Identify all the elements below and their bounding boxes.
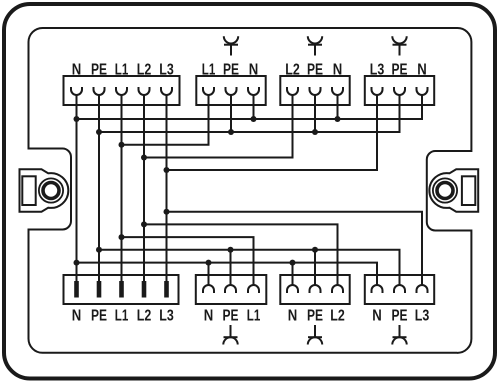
junction PE/X1 bottom bbox=[96, 247, 102, 253]
terminal block X3 top (L2 PE N) bbox=[280, 76, 349, 105]
svg-text:L2: L2 bbox=[137, 308, 152, 325]
svg-text:N: N bbox=[249, 62, 259, 79]
junction N/X2 top bbox=[251, 116, 257, 122]
svg-text:PE: PE bbox=[307, 308, 323, 325]
junction PE/X3 top bbox=[312, 129, 318, 135]
wire X2-PE drop bbox=[230, 95, 232, 132]
junction L3 bottom bbox=[164, 209, 170, 215]
svg-text:N: N bbox=[372, 308, 382, 325]
right lug outer circle bbox=[433, 178, 457, 202]
terminal block X8 bottom (N PE L3) bbox=[365, 275, 434, 304]
X5 pin labels N PE L1 L2 L3 bbox=[72, 308, 174, 325]
wire N feed column (X1-N to X5-N) bbox=[76, 95, 78, 281]
svg-text:N: N bbox=[333, 62, 343, 79]
wire L3 bottom rail to X8-L3 bbox=[167, 212, 423, 285]
X3 pin labels L2 PE N bbox=[285, 62, 342, 79]
PE plug symbol above X3 bbox=[308, 36, 322, 55]
junction N/X1 top bbox=[74, 116, 80, 122]
terminal block X1 top feed-in (N PE L1 L2 L3) bbox=[64, 76, 180, 105]
svg-text:PE: PE bbox=[307, 62, 323, 79]
junction L2 bottom bbox=[141, 221, 147, 227]
X6 pin labels N PE L1 bbox=[204, 308, 261, 325]
wire X6-N riser bbox=[208, 263, 210, 285]
svg-text:L1: L1 bbox=[202, 62, 216, 79]
svg-text:PE: PE bbox=[91, 308, 107, 325]
enclosure inner border with mounting notches bbox=[29, 28, 472, 353]
svg-text:L1: L1 bbox=[247, 308, 261, 325]
wire L1 bottom rail to X6-L1 bbox=[122, 237, 254, 285]
wire PE bus top rail to X4-PE bbox=[99, 95, 400, 132]
svg-text:PE: PE bbox=[223, 308, 239, 325]
X7 pin labels N PE L2 bbox=[288, 308, 345, 325]
X8 pin labels N PE L3 bbox=[372, 308, 429, 325]
terminal block X2 top (L1 PE N) bbox=[196, 76, 265, 105]
junction L1 top bbox=[119, 142, 125, 148]
svg-text:L1: L1 bbox=[115, 62, 129, 79]
junction PE/X6 bottom bbox=[228, 247, 234, 253]
left mounting lug outline bbox=[20, 169, 69, 211]
X2 pin labels L1 PE N bbox=[202, 62, 259, 79]
wire L3 top rail to X4-L3 bbox=[167, 95, 378, 170]
wire L3 feed column bbox=[166, 95, 168, 281]
junction L2 top bbox=[141, 155, 147, 161]
wire PE bus bottom rail to X8-PE bbox=[99, 250, 400, 285]
svg-text:L2: L2 bbox=[285, 62, 300, 79]
PE plug symbol above X4 bbox=[392, 36, 406, 55]
PE plug symbol below X6 bbox=[223, 325, 237, 345]
wire X3-PE drop bbox=[314, 95, 316, 132]
wire X7-PE riser bbox=[314, 250, 316, 285]
svg-text:PE: PE bbox=[223, 62, 239, 79]
left lug outer circle bbox=[39, 178, 63, 202]
wire PE feed column bbox=[98, 95, 100, 281]
X4 pin labels L3 PE N bbox=[370, 62, 427, 79]
terminal block X7 bottom (N PE L2) bbox=[280, 275, 349, 304]
svg-text:L3: L3 bbox=[159, 308, 174, 325]
terminal block X5 bottom feed-through (N PE L1 L2 L3) bbox=[64, 275, 179, 304]
X6 socket contacts (cups, open down) bbox=[203, 285, 259, 293]
svg-text:N: N bbox=[417, 62, 427, 79]
junction PE/X2 top bbox=[228, 129, 234, 135]
svg-text:PE: PE bbox=[392, 308, 408, 325]
svg-text:N: N bbox=[204, 308, 214, 325]
junction N/X6 bottom bbox=[206, 260, 212, 266]
wire L1 feed column bbox=[121, 95, 123, 281]
svg-text:L3: L3 bbox=[370, 62, 385, 79]
right lug slot bracket bbox=[462, 176, 475, 205]
X1 socket contacts (cups) bbox=[71, 87, 172, 95]
junction L1 bottom bbox=[119, 234, 125, 240]
X7 socket contacts (cups, open down) bbox=[287, 285, 343, 293]
X3 socket contacts (cups) bbox=[287, 87, 343, 95]
junction N/X1 bottom bbox=[74, 260, 80, 266]
PE plug symbol below X7 bbox=[308, 325, 322, 345]
right lug screw ring bbox=[437, 183, 453, 199]
svg-text:L2: L2 bbox=[330, 308, 345, 325]
wire X3-N drop bbox=[337, 95, 339, 119]
left lug slot bracket bbox=[22, 176, 35, 205]
wire N bus bottom rail to X8-N bbox=[77, 263, 378, 285]
X5 pin contacts (solid bars) bbox=[74, 281, 169, 298]
junction PE/X1 top bbox=[96, 129, 102, 135]
X4 socket contacts (cups) bbox=[372, 87, 428, 95]
junction L3 top bbox=[164, 167, 170, 173]
wire X7-N riser bbox=[292, 263, 294, 285]
wire X2-N drop bbox=[253, 95, 255, 119]
PE plug symbol above X2 bbox=[224, 36, 238, 55]
terminal block X4 top (L3 PE N) bbox=[365, 76, 434, 105]
right mounting lug outline bbox=[429, 169, 478, 211]
svg-text:L3: L3 bbox=[159, 62, 174, 79]
wire N bus top rail to X4-N bbox=[77, 95, 423, 119]
X2 socket contacts (cups) bbox=[203, 87, 259, 95]
X8 socket contacts (cups, open down) bbox=[372, 285, 428, 293]
wire X6-PE riser bbox=[230, 250, 232, 285]
svg-text:N: N bbox=[72, 62, 82, 79]
wire L2 top rail to X3-L2 bbox=[144, 95, 293, 158]
junction N/X7 bottom bbox=[290, 260, 296, 266]
svg-text:N: N bbox=[72, 308, 82, 325]
svg-text:N: N bbox=[288, 308, 298, 325]
svg-text:PE: PE bbox=[91, 62, 107, 79]
PE plug symbol below X8 bbox=[392, 325, 406, 345]
terminal block X6 bottom (N PE L1) bbox=[196, 275, 266, 304]
wire L2 feed column bbox=[143, 95, 145, 281]
svg-text:L1: L1 bbox=[115, 308, 129, 325]
junction PE/X7 bottom bbox=[312, 247, 318, 253]
wire L2 bottom rail to X7-L2 bbox=[144, 224, 338, 285]
svg-text:L2: L2 bbox=[137, 62, 152, 79]
left lug screw ring bbox=[43, 183, 59, 199]
svg-text:L3: L3 bbox=[415, 308, 430, 325]
svg-text:PE: PE bbox=[392, 62, 408, 79]
X1 pin labels N PE L1 L2 L3 bbox=[72, 62, 174, 79]
junction N/X3 top bbox=[335, 116, 341, 122]
wire L1 top rail to X2-L1 bbox=[122, 95, 209, 145]
